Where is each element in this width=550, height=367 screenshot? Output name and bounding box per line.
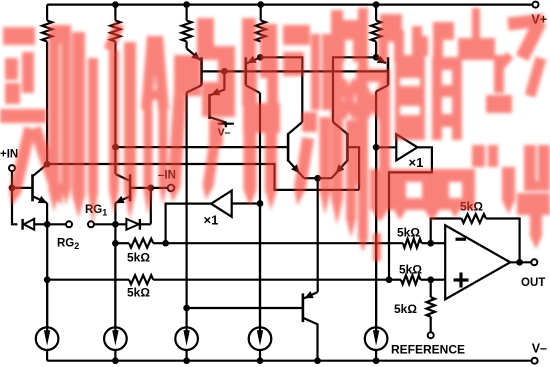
svg-text:OUT: OUT	[521, 277, 545, 289]
svg-text:V–: V–	[532, 342, 547, 356]
svg-text:×1: ×1	[409, 155, 424, 170]
svg-text:+IN: +IN	[0, 149, 18, 161]
svg-text:5kΩ: 5kΩ	[127, 286, 150, 300]
svg-text:REFERENCE: REFERENCE	[391, 343, 465, 357]
svg-text:×1: ×1	[204, 212, 219, 227]
svg-text:5kΩ: 5kΩ	[399, 262, 422, 276]
svg-text:5kΩ: 5kΩ	[127, 251, 150, 265]
svg-text:5kΩ: 5kΩ	[397, 225, 420, 239]
svg-text:5kΩ: 5kΩ	[394, 302, 417, 316]
